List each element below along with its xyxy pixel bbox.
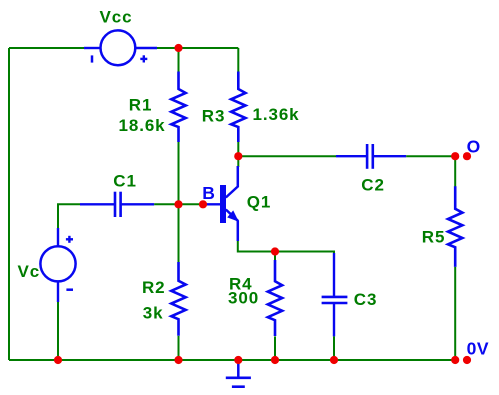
svg-text:B: B xyxy=(202,183,215,203)
svg-text:C1: C1 xyxy=(113,172,137,191)
wire R3 to collector node xyxy=(237,142,239,167)
wire C3 bottom xyxy=(333,336,335,360)
resistor R1 xyxy=(171,72,185,143)
junction dot R4 bottom xyxy=(271,356,279,364)
ground xyxy=(226,360,251,387)
capacitor C2 xyxy=(336,144,406,169)
wire R1 branch upper xyxy=(178,48,180,72)
wire C1 left to Vc corner xyxy=(58,204,80,228)
voltage source Vcc xyxy=(84,30,157,65)
junction dot base pin xyxy=(199,200,207,208)
svg-text:3k: 3k xyxy=(143,304,164,323)
svg-text:R5: R5 xyxy=(422,228,446,247)
svg-text:R3: R3 xyxy=(202,107,226,126)
junction dot Vc bottom xyxy=(54,356,62,364)
junction dot ground node xyxy=(234,356,242,364)
svg-text:R2: R2 xyxy=(142,278,166,297)
transistor Q1 xyxy=(203,166,239,241)
junction dot C3 bottom xyxy=(330,356,338,364)
resistor R2 xyxy=(171,262,185,336)
wire R1 to base node xyxy=(178,142,180,262)
wire R4 top stub xyxy=(274,252,276,262)
junction dot R2 bottom xyxy=(174,356,182,364)
resistor R5 xyxy=(448,186,462,267)
svg-text:18.6k: 18.6k xyxy=(119,116,166,135)
wire bottom rail xyxy=(9,359,455,361)
wire R3 branch upper xyxy=(237,48,239,72)
svg-text:300: 300 xyxy=(228,288,259,307)
wire C1 right to base node xyxy=(154,203,203,205)
junction dot 0V pin xyxy=(463,356,471,364)
voltage source Vc xyxy=(40,228,75,302)
wire Vc bottom xyxy=(57,302,59,360)
wire C2 right to O corner xyxy=(406,155,455,157)
wire left vertical rail xyxy=(8,48,10,360)
capacitor C1 xyxy=(80,192,154,217)
wire top rail left segment xyxy=(9,47,84,49)
svg-text:C3: C3 xyxy=(354,290,378,309)
wire emitter to C3 corner xyxy=(238,241,334,254)
svg-text:0V: 0V xyxy=(467,339,489,359)
svg-text:1.36k: 1.36k xyxy=(253,105,300,124)
resistor R3 xyxy=(231,72,245,143)
junction dot bottom right corner xyxy=(451,356,459,364)
resistor R4 xyxy=(268,260,282,336)
junction dot O pin xyxy=(463,152,471,160)
wire top rail right segment xyxy=(157,47,238,49)
wire right vertical upper xyxy=(454,156,456,186)
svg-text:Vc: Vc xyxy=(18,262,41,281)
svg-text:R1: R1 xyxy=(129,96,153,115)
svg-text:C2: C2 xyxy=(361,176,385,195)
wire right vertical lower xyxy=(454,267,456,360)
junction dot collector node xyxy=(234,152,242,160)
wire collector horizontal xyxy=(238,155,336,157)
svg-text:Q1: Q1 xyxy=(247,193,271,212)
junction dot top R1 xyxy=(174,44,182,52)
junction dot base R1R2C1 xyxy=(174,200,182,208)
junction dot emitter R4 xyxy=(271,247,279,255)
junction dot O corner xyxy=(451,152,459,160)
capacitor C3 xyxy=(322,253,348,336)
wire R2 bottom xyxy=(178,336,180,360)
wire R4 bottom xyxy=(274,336,276,360)
svg-text:Vcc: Vcc xyxy=(100,8,133,27)
